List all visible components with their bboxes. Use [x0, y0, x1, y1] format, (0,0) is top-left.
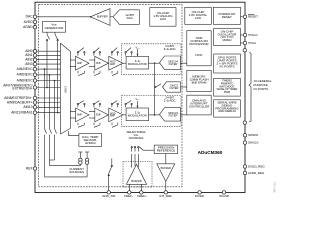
- wire IEXC column AIN4: [44, 68, 46, 70]
- pin INT_REF: [164, 191, 167, 194]
- pin AIN2: [33, 58, 36, 61]
- GPIO bracket bottom pin: [243, 121, 246, 124]
- pin RESET: [243, 15, 246, 18]
- svg-text:AIN2: AIN2: [25, 58, 32, 62]
- power-on reset block: [213, 7, 240, 24]
- op-amp output buffer (DAC buffer): [90, 9, 110, 26]
- svg-text:VREF−: VREF−: [124, 194, 134, 198]
- wire AIN3 to MUX: [35, 63, 61, 65]
- wire modulator 0 to sinc filter 0: [149, 62, 160, 64]
- precision reference block: [154, 145, 178, 154]
- sinc3 filter (middle): [163, 82, 181, 92]
- wire current source rail 2: [45, 176, 88, 178]
- wire IEXC column AIN5: [49, 74, 51, 76]
- svg-text:INT_REF: INT_REF: [160, 194, 173, 198]
- on-chip oscillator block: [214, 28, 241, 45]
- wires vref select into buffer box: [131, 154, 133, 168]
- vref source contacts: [131, 147, 132, 148]
- wire AIN5 to MUX: [35, 74, 61, 76]
- wire POR to RESET pin: [241, 16, 246, 18]
- wire modamp to modulator 0: [123, 62, 126, 64]
- wire osc to XTALI: [240, 42, 245, 44]
- pin AIN8/EXTREF2IN-: [33, 96, 36, 99]
- svg-text:BUFFER: BUFFER: [161, 166, 172, 170]
- pin AIN7/VBIAS0/IEXC/EXTREF2IN+: [33, 86, 36, 89]
- wire AIN8 to MUX: [35, 97, 61, 99]
- svg-text:AGND: AGND: [23, 25, 33, 29]
- switch to middle sinc filter: [156, 84, 161, 87]
- wire AMP to BUF 1 (pair): [89, 111, 95, 113]
- wire MUX to AMP 0 (pair): [70, 59, 75, 61]
- svg-text:VREF+: VREF+: [137, 194, 147, 198]
- pin GND_SW: [107, 191, 110, 194]
- svg-text:SINC3/4FILTER: SINC3/4FILTER: [168, 59, 178, 66]
- DAC temp sensor avdd/4 block: [79, 134, 102, 147]
- wire ADC1 to DMA: [181, 114, 187, 116]
- pin SWDIO: [243, 134, 246, 137]
- pin AVDD: [33, 20, 36, 23]
- pin VREF+: [140, 191, 143, 194]
- svg-text:AIN9/DACBUFF+: AIN9/DACBUFF+: [7, 100, 33, 104]
- wire current source rail 1: [50, 165, 81, 167]
- svg-text:SINC3/4FILTER: SINC3/4FILTER: [168, 111, 178, 118]
- wire osc to XTALO: [240, 34, 245, 36]
- analog input MUX: [61, 43, 71, 134]
- wire ADC0 to processor: [181, 62, 187, 64]
- svg-text:GND_SW: GND_SW: [102, 194, 115, 198]
- pin AIN10: [33, 106, 36, 109]
- svg-text:CURRENTSOURCES: CURRENTSOURCES: [69, 167, 84, 174]
- svg-text:DVDD_REG: DVDD_REG: [248, 164, 265, 168]
- svg-text:REF: REF: [26, 166, 33, 170]
- wire modulator 1 to sinc filter 1: [149, 114, 160, 116]
- svg-text:XTALI: XTALI: [248, 41, 256, 45]
- wire AIN1 to MUX: [35, 54, 61, 56]
- ARM Cortex-M3 processor block: [187, 31, 211, 66]
- mod amp 0: [109, 56, 123, 70]
- mod amp 1: [109, 108, 123, 122]
- pin AIN4/IEXC: [33, 67, 36, 70]
- switches above chain 1: [78, 101, 132, 108]
- buffer BUF 1: [95, 108, 109, 122]
- wire IEXC column AIN6: [54, 80, 56, 82]
- pin SWCLK: [243, 141, 246, 144]
- GPIO bracket top pin: [243, 49, 246, 52]
- svg-text:BUF: BUF: [96, 115, 101, 117]
- svg-text:AVDD: AVDD: [24, 20, 34, 24]
- wire AIN11 to MUX: [35, 112, 61, 114]
- pin AIN3: [33, 62, 36, 65]
- pin AIN11/VBIAS1: [33, 111, 36, 114]
- pin AVDD_REG: [243, 171, 246, 174]
- svg-text:AIN10: AIN10: [23, 105, 32, 109]
- current source 2: [86, 152, 88, 158]
- amplifier AMP 1: [76, 108, 89, 122]
- svg-text:SWDIO: SWDIO: [248, 133, 259, 137]
- sigma-delta modulator 0: [126, 56, 148, 69]
- pin AGND: [33, 26, 36, 29]
- wire AIN4 to MUX: [35, 68, 61, 70]
- svg-text:SERIAL WIREDEBUGPROGRAMMINGAND: SERIAL WIREDEBUGPROGRAMMINGAND DEBUG: [215, 101, 239, 114]
- wire buffer to VREF- pin: [128, 184, 130, 192]
- pin IOGND: [222, 191, 225, 194]
- switch IEXC 3: [55, 129, 57, 134]
- wire modamp to modulator 1: [123, 114, 126, 116]
- pin DAC: [33, 15, 36, 18]
- svg-text:09441-001: 09441-001: [273, 181, 276, 193]
- svg-text:SINC3FILTER: SINC3FILTER: [170, 84, 179, 91]
- wire AIN10 to MUX: [35, 106, 61, 108]
- svg-text:AIN6/IEXC: AIN6/IEXC: [17, 78, 34, 82]
- svg-text:BUF: BUF: [96, 63, 101, 65]
- svg-text:ADuCM360: ADuCM360: [198, 150, 223, 155]
- pin AIN9/DACBUFF+: [33, 101, 36, 104]
- wire VREF to modulator 0: [137, 49, 139, 56]
- wire buffer to VREF+ pin: [140, 184, 142, 192]
- analog section dashed border: [39, 5, 182, 187]
- chip outer border: [35, 2, 245, 192]
- svg-text:AVDD_REG: AVDD_REG: [248, 171, 265, 175]
- amplifier AMP 0: [76, 56, 89, 70]
- on-chip 1.8V analog LDO block: [150, 8, 176, 27]
- ADC0 dashed box: [122, 44, 182, 75]
- svg-text:AIN8/EXTREF2IN−: AIN8/EXTREF2IN−: [4, 96, 32, 100]
- svg-text:AMP: AMP: [77, 62, 82, 65]
- DMA and interrupt controller block: [187, 95, 211, 115]
- sigma-delta modulator 1: [126, 108, 148, 121]
- wire AMP to BUF 0 (pair): [89, 59, 95, 61]
- svg-text:MODAMP: MODAMP: [110, 113, 116, 117]
- memory block: [187, 70, 211, 91]
- 12-bit DAC block: [113, 10, 139, 25]
- pin IOVDD: [198, 191, 201, 194]
- vref buffer dashed box: [123, 162, 152, 188]
- wire precision ref to selector switch: [144, 149, 155, 151]
- svg-text:IOGND: IOGND: [219, 194, 230, 198]
- switch IEXC 2: [50, 129, 52, 134]
- switch IEXC 1: [45, 129, 47, 134]
- wire buffer to DAC block: [110, 16, 113, 18]
- svg-text:MODAMP: MODAMP: [110, 62, 116, 66]
- buffer BUF 0: [95, 56, 109, 70]
- ADC1 dashed box: [122, 96, 182, 127]
- svg-text:SWCLK: SWCLK: [248, 140, 259, 144]
- svg-text:GPIO PORTSUART PORTS2 × SPI PO: GPIO PORTSUART PORTS2 × SPI PORTSI²C POR…: [216, 56, 237, 69]
- switch vbias0: [46, 32, 48, 34]
- wire linking ADC outputs: [154, 63, 156, 115]
- svg-text:AIN4/IEXC: AIN4/IEXC: [17, 67, 34, 71]
- node buffer tip junction: [90, 16, 92, 18]
- sinc3/4 filter 1: [160, 108, 181, 121]
- pin XTALO: [243, 33, 246, 36]
- svg-text:BUFFER: BUFFER: [131, 179, 142, 183]
- svg-text:DAC: DAC: [26, 15, 34, 19]
- switches above chain 0: [78, 48, 132, 56]
- svg-text:IOVDD: IOVDD: [195, 194, 205, 198]
- pin REF (left bottom): [33, 167, 36, 170]
- wire GND_SW with switch: [108, 175, 110, 193]
- timers block: [214, 78, 241, 96]
- wire VREF to modulator 1: [137, 101, 139, 108]
- pin DVDD_REG: [243, 165, 246, 168]
- wire AIN2 to MUX: [35, 59, 61, 61]
- svg-text:XTALO: XTALO: [248, 33, 258, 37]
- switch vbias1: [54, 32, 56, 34]
- svg-text:MEMORY126kB FLASH8kB SRAM: MEMORY126kB FLASH8kB SRAM: [189, 75, 208, 85]
- on-chip 1.8V digital LDO block: [185, 7, 212, 24]
- sinc3/4 filter 0: [160, 56, 181, 69]
- wire AIN7 to MUX: [35, 87, 61, 89]
- wire MUX to AMP 1 (pair): [70, 111, 75, 113]
- wire vbias0 to AIN7: [46, 41, 48, 88]
- wire dac/temp block to MUX: [69, 131, 79, 136]
- pin AIN5/IEXC: [33, 73, 36, 76]
- wire AIN9 to MUX: [35, 102, 61, 104]
- serial wire debug block: [214, 100, 241, 117]
- selector switch arm: [139, 147, 143, 150]
- svg-text:AIN5/IEXC: AIN5/IEXC: [17, 73, 34, 77]
- wire DAC pin to buffer: [35, 16, 90, 18]
- wire AIN0 to MUX: [35, 50, 61, 52]
- GPIO bracket line: [249, 52, 251, 122]
- current source 1: [79, 152, 81, 158]
- svg-text:MUX: MUX: [63, 86, 67, 93]
- svg-text:PRECISIONREFERENCE: PRECISIONREFERENCE: [157, 146, 176, 153]
- svg-text:AIN11/VBIAS1: AIN11/VBIAS1: [11, 110, 33, 114]
- Vbias generator block: [43, 21, 66, 32]
- pin AIN1: [33, 54, 36, 57]
- pin AIN0: [33, 50, 36, 53]
- int_ref buffer amp: [157, 164, 175, 182]
- wire precision ref to int buffer: [165, 154, 167, 164]
- pin XTALI: [243, 41, 246, 44]
- vref buffer amp: [126, 164, 146, 184]
- wire middle sinc to memory: [181, 86, 187, 88]
- chop marks below chain 1: [78, 123, 118, 128]
- pin VREF-: [128, 191, 131, 194]
- GPIO / UART / SPI / I2C ports block: [214, 54, 241, 73]
- wire int buffer to INT_REF pin: [165, 182, 167, 193]
- wire vbias1 to AIN11: [57, 41, 59, 113]
- wire AIN6 to MUX: [35, 80, 61, 82]
- svg-text:AIN3: AIN3: [25, 62, 32, 66]
- svg-text:RESET: RESET: [248, 15, 258, 19]
- pin AIN6/IEXC: [33, 79, 36, 82]
- svg-text:BUFFER: BUFFER: [97, 15, 108, 19]
- svg-text:AMP: AMP: [77, 114, 82, 117]
- chop marks below chain 0: [78, 71, 118, 76]
